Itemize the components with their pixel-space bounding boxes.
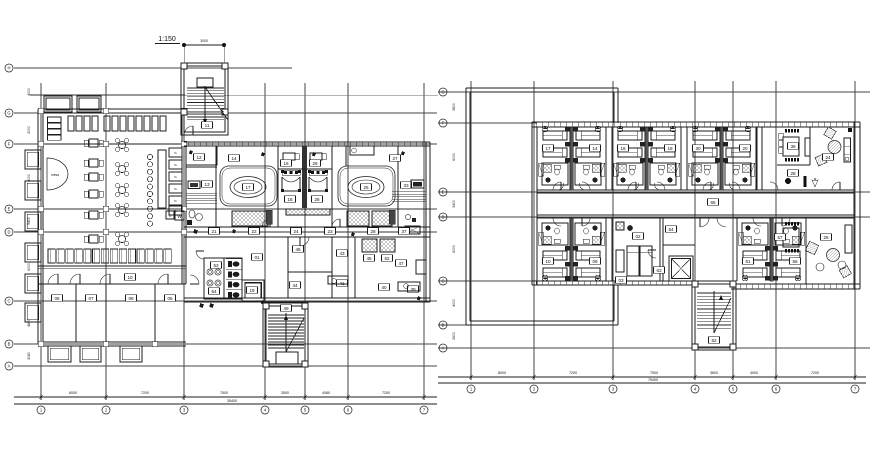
column (38, 108, 44, 114)
room label 05 (165, 295, 176, 302)
stair tread (187, 110, 224, 112)
figure glyph (351, 232, 355, 237)
window mullion (397, 142, 399, 146)
chair (404, 284, 409, 289)
svg-text:20: 20 (742, 146, 748, 151)
figure glyph (189, 150, 193, 155)
grid line B (left plan) (14, 343, 437, 345)
grid bubble C' (right plan) (439, 277, 447, 285)
svg-text:35400: 35400 (227, 399, 237, 403)
window mullion (535, 281, 537, 285)
window mullion (601, 281, 603, 285)
wall top mid-section (row F) (184, 141, 430, 143)
grid bubble E' (right plan) (439, 188, 447, 196)
window mullion (193, 142, 195, 146)
column (103, 141, 109, 147)
window mullion (769, 122, 771, 127)
window mullion (667, 122, 669, 127)
window mullion (769, 284, 771, 289)
window mullion (763, 122, 765, 127)
column (730, 281, 736, 287)
room door (582, 182, 590, 190)
partition wall room 12/14 (215, 146, 217, 227)
svg-text:10: 10 (545, 259, 551, 264)
column (263, 303, 269, 309)
stair diagonal (286, 318, 304, 352)
window mullion (223, 142, 225, 146)
locker (155, 249, 162, 263)
room label 57 (775, 234, 786, 241)
room label 53 (211, 262, 222, 269)
svg-text:4800: 4800 (27, 319, 31, 327)
row D interior line (38, 231, 430, 233)
svg-text:57: 57 (777, 235, 783, 240)
kitchen unit (169, 148, 182, 157)
svg-text:45: 45 (366, 256, 372, 261)
stair tread (187, 119, 224, 121)
partition wall room 14/15 (277, 146, 279, 227)
buttress box (left wall) (25, 212, 41, 231)
hotel room interior (739, 223, 770, 281)
locker (84, 249, 91, 263)
window mullion (541, 122, 543, 127)
svg-text:6000: 6000 (27, 263, 31, 271)
room label 27 (390, 155, 401, 162)
svg-text:4000: 4000 (27, 88, 31, 96)
window mullion (847, 284, 849, 289)
grid bubble G (left plan) (5, 109, 13, 117)
headboard (309, 171, 327, 176)
stair tread (268, 335, 304, 337)
grid line G' (right plan) (438, 91, 870, 93)
window mullion (283, 142, 285, 146)
window mullion (853, 284, 855, 289)
room label 06 (52, 295, 63, 302)
window mullion (757, 284, 759, 289)
window mullion (655, 281, 657, 285)
sofa dot row (785, 129, 787, 133)
window mullion (577, 281, 579, 285)
suite wall (805, 218, 807, 284)
porch step box (80, 346, 101, 362)
corridor wall upper (mid) (184, 226, 430, 228)
figure glyph (417, 296, 421, 301)
stair tower column (181, 63, 187, 69)
window mullion (709, 122, 711, 127)
column (181, 141, 187, 147)
grid line B' (right plan) (438, 324, 618, 326)
window mullion (799, 122, 801, 127)
svg-text:01: 01 (254, 255, 260, 260)
overall dimension line (438, 382, 866, 384)
svg-text:06: 06 (54, 296, 60, 301)
svg-text:18: 18 (667, 146, 673, 151)
stair tower walls (692, 281, 736, 350)
svg-text:D: D (441, 215, 444, 220)
svg-text:28: 28 (790, 171, 796, 176)
bench chair (160, 116, 166, 131)
dim tick (470, 374, 472, 380)
grid line 6' (right plan) (775, 81, 777, 377)
wall right (right plan) (853, 122, 855, 289)
svg-text:53: 53 (213, 263, 219, 268)
svg-text:64: 64 (668, 227, 674, 232)
wc (627, 225, 632, 230)
window mullion (817, 284, 819, 289)
square table + chairs (89, 159, 98, 167)
bed rail (308, 177, 310, 191)
window mullion (805, 122, 807, 127)
room label 30 (693, 145, 704, 152)
svg-text:3400: 3400 (452, 200, 456, 208)
square table + chairs (89, 235, 98, 243)
window mullion (595, 281, 597, 285)
room label 11 (202, 122, 213, 129)
suite bed lower (783, 228, 799, 247)
window mullion (691, 122, 693, 127)
svg-text:3600: 3600 (710, 371, 718, 375)
shelf line (186, 202, 217, 204)
wc fixture (228, 292, 232, 298)
wall grid-3 partition (181, 113, 183, 284)
stair tread (697, 302, 731, 304)
pillow (352, 148, 357, 153)
dim tick (694, 374, 696, 380)
stair tread (268, 347, 304, 349)
figure glyph (194, 229, 199, 234)
wardrobe box (779, 147, 784, 153)
bar counter (158, 150, 166, 208)
grid line A' (right plan) (438, 347, 870, 349)
room label 09 (590, 258, 601, 265)
window mullion (307, 142, 309, 146)
wall room 46 right (331, 237, 333, 298)
hatched armchair (839, 266, 851, 278)
stair tread (187, 90, 224, 92)
svg-text:54: 54 (211, 289, 217, 294)
sofa dot row (785, 158, 787, 162)
window mullion (229, 142, 231, 146)
room door (732, 182, 740, 190)
room label 26 (310, 160, 321, 167)
round table + chairs (118, 165, 125, 172)
svg-text:3800: 3800 (452, 103, 456, 111)
room label 36 (788, 143, 799, 150)
shelf line (186, 192, 217, 194)
room wall (611, 218, 613, 281)
door toilet room (196, 251, 204, 259)
window mullion (535, 122, 537, 127)
room label 14 (229, 155, 240, 162)
grid line D (left plan) (14, 231, 437, 233)
room label 16 (285, 196, 296, 203)
jacuzzi room inner wall (222, 168, 275, 204)
window mullion (739, 284, 741, 289)
room label 65 (708, 199, 719, 206)
bathroom of suite (785, 178, 791, 184)
window mullion (799, 284, 801, 289)
square table + chairs (89, 190, 98, 198)
stair rail (285, 313, 287, 352)
svg-text:C: C (441, 279, 444, 284)
window mullion (631, 122, 633, 127)
svg-text:A: A (8, 364, 11, 369)
grid line C (left plan) (14, 300, 437, 302)
dim tick (304, 394, 306, 400)
grid bubble 2' (530, 385, 538, 393)
figure glyph (210, 303, 215, 308)
dresser unit (48, 117, 62, 122)
bench chair (112, 116, 118, 131)
bed vertical (640, 246, 652, 276)
kitchen unit (169, 206, 182, 215)
svg-text:52: 52 (384, 256, 390, 261)
svg-text:41: 41 (339, 281, 345, 286)
room label 37 (399, 228, 410, 235)
desk (398, 282, 420, 291)
stool (405, 214, 410, 219)
hotel room interior (649, 126, 680, 190)
room door (657, 182, 665, 190)
svg-text:24: 24 (825, 155, 831, 160)
room divider wall (75, 284, 77, 342)
planter box (44, 96, 72, 112)
svg-text:02: 02 (635, 234, 641, 239)
room label 39 (408, 286, 419, 293)
partition wall room 25/27 (345, 146, 347, 166)
grid bubble 7 (420, 406, 428, 414)
column (692, 281, 698, 287)
stair tread (268, 323, 304, 325)
side table (845, 157, 849, 161)
party wall fill (570, 218, 573, 281)
row E interior line (38, 208, 430, 210)
svg-text:7200: 7200 (141, 391, 149, 395)
window mullion (343, 142, 345, 146)
bar stool (147, 154, 152, 159)
dim tick (105, 394, 107, 400)
stair tread (268, 341, 304, 343)
window mullion (271, 142, 273, 146)
grid bubble C (left plan) (5, 297, 13, 305)
window mullion (235, 142, 237, 146)
svg-text:6000: 6000 (452, 245, 456, 253)
door spa corridor (262, 219, 270, 227)
window mullion (643, 122, 645, 127)
room label 64 (666, 226, 677, 233)
svg-text:4000: 4000 (452, 299, 456, 307)
sofa (844, 138, 851, 162)
window mullion (301, 142, 303, 146)
column (103, 206, 109, 212)
room label 10 (543, 258, 554, 265)
svg-text:05: 05 (167, 296, 173, 301)
svg-text:03: 03 (618, 278, 624, 283)
window mullion (673, 281, 675, 285)
svg-text:F: F (8, 142, 11, 147)
sauna benches (hatched) (347, 211, 369, 226)
room label 25 (361, 184, 372, 191)
window mullion (811, 122, 813, 127)
column (103, 229, 109, 235)
stair rail (204, 86, 206, 126)
kitchen unit (169, 196, 182, 205)
stair tread (268, 314, 304, 316)
room door (582, 218, 590, 226)
grid line 6 (left plan) (347, 83, 349, 397)
stair tread (697, 298, 731, 300)
figure glyph (401, 151, 405, 156)
window mullion (661, 122, 663, 127)
jacuzzi room inner wall (340, 168, 393, 204)
locker (48, 249, 55, 263)
plant glyph (812, 178, 818, 187)
locker (146, 249, 153, 263)
grid line G (left plan) (14, 112, 437, 114)
window mullion (697, 122, 699, 127)
svg-text:30: 30 (695, 146, 701, 151)
window mullion (187, 142, 189, 146)
room label 33 (401, 182, 412, 189)
dim tick (854, 374, 856, 380)
hall door (700, 218, 709, 227)
wardrobe box (779, 140, 784, 146)
window mullion (247, 142, 249, 146)
window mullion (733, 284, 735, 289)
lockers base line 2 (38, 268, 186, 270)
wall bottom left part (532, 280, 695, 282)
svg-text:3500: 3500 (281, 391, 289, 395)
hatched storage room (380, 239, 395, 252)
locker (110, 249, 117, 263)
room label 47 (396, 260, 407, 267)
window mullion (823, 122, 825, 127)
grid bubble 1 (37, 406, 45, 414)
bed vertical (627, 246, 639, 276)
stair tread (697, 311, 731, 313)
window mullion (607, 281, 609, 285)
window mullion (787, 122, 789, 127)
column (103, 108, 109, 114)
dark bench strip (389, 210, 395, 224)
bench chair (120, 116, 126, 131)
stage mesa (47, 158, 68, 190)
window mullion (199, 142, 201, 146)
svg-text:65: 65 (710, 200, 716, 205)
window mullion (613, 122, 615, 127)
stair tower walls (181, 63, 228, 135)
svg-text:1:150: 1:150 (158, 36, 176, 43)
grid line 5' (right plan) (732, 81, 734, 377)
window mullion (619, 281, 621, 285)
room label 45 (364, 255, 375, 262)
window mullion (565, 281, 567, 285)
column (730, 344, 736, 350)
grid bubble 7' (851, 385, 859, 393)
window mullion (379, 142, 381, 146)
window mullion (781, 284, 783, 289)
shelf line (392, 191, 426, 193)
grid line 1' (right plan) (470, 81, 472, 377)
hotel room interior (539, 126, 570, 190)
svg-text:3080: 3080 (27, 352, 31, 360)
svg-text:11: 11 (205, 123, 210, 128)
room side wall (605, 127, 607, 190)
column (38, 141, 44, 147)
window mullion (649, 122, 651, 127)
window mullion (211, 142, 213, 146)
room divider wall (105, 284, 107, 342)
cabinet (416, 260, 426, 274)
window mullion (811, 284, 813, 289)
stair landing (276, 352, 298, 364)
reference line to right plan (185, 94, 438, 96)
grid line 1 (left plan) (40, 83, 42, 397)
window mullion (649, 281, 651, 285)
svg-text:4080: 4080 (322, 391, 330, 395)
grid line 4' (right plan) (694, 81, 696, 377)
window mullion (421, 142, 423, 146)
locker (75, 249, 82, 263)
wall (663, 244, 695, 246)
svg-text:17: 17 (545, 146, 551, 151)
svg-text:26: 26 (312, 161, 318, 166)
dark party wall rooms 15/26 (302, 146, 307, 208)
window mullion (361, 142, 363, 146)
window mullion (655, 122, 657, 127)
grid line 7 (left plan) (423, 83, 425, 397)
wall right mid-section (425, 142, 427, 302)
svg-text:8000: 8000 (27, 174, 31, 182)
bar stool (147, 206, 152, 211)
svg-text:7500: 7500 (220, 391, 228, 395)
room label 52 (382, 255, 393, 262)
window mullion (349, 142, 351, 146)
figure glyph (312, 152, 316, 157)
tall cabinet (805, 138, 810, 156)
svg-text:09: 09 (592, 259, 598, 264)
room side wall (680, 127, 682, 190)
bed horizontal (283, 153, 295, 160)
dresser unit (48, 129, 62, 134)
stair tread (697, 308, 731, 310)
room side wall (605, 218, 607, 281)
bed rail (326, 177, 328, 191)
svg-text:G: G (441, 90, 444, 95)
figure glyph (232, 229, 236, 234)
wall bottom mid-section (184, 297, 430, 299)
grid bubble A (left plan) (5, 362, 13, 370)
dim tick (183, 394, 185, 400)
window mullion (745, 122, 747, 127)
window mullion (541, 281, 543, 285)
buttress box (left wall) (25, 274, 41, 293)
window mullion (793, 284, 795, 289)
party wall (644, 127, 646, 190)
room side wall (536, 127, 538, 190)
dimension line (438, 376, 866, 378)
room label 21 (209, 228, 220, 235)
room label 17 (543, 145, 554, 152)
window mullion (679, 281, 681, 285)
dim tick (732, 374, 734, 380)
window mullion (373, 142, 375, 146)
grid bubble F' (right plan) (439, 119, 447, 127)
hotel room interior (724, 126, 755, 190)
room label 24 (291, 228, 302, 235)
svg-text:C: C (7, 299, 10, 304)
window mullion (727, 122, 729, 127)
